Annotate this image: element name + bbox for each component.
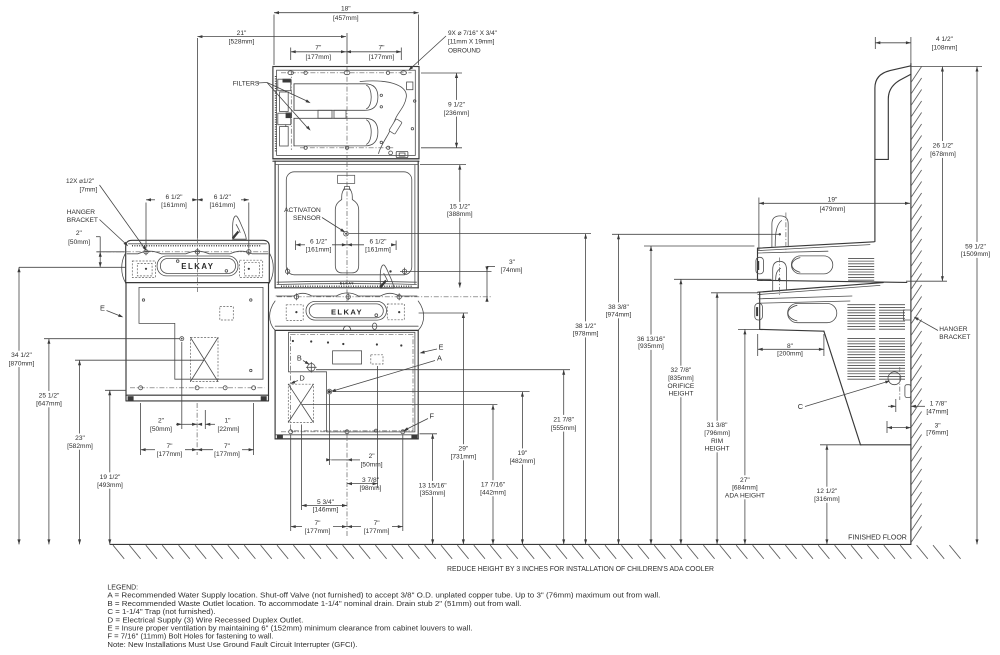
dim 7in pair left unit bolts	[140, 403, 142, 455]
svg-text:BRACKET: BRACKET	[67, 217, 98, 224]
svg-text:[177mm]: [177mm]	[157, 451, 183, 458]
left unit basin scallops	[127, 251, 268, 254]
filter cabinet top obround holes row	[281, 72, 412, 74]
cartridge connector band	[318, 110, 332, 118]
svg-text:[177mm]: [177mm]	[364, 528, 390, 535]
svg-text:HANGER: HANGER	[939, 326, 967, 333]
dim 36 13/16 height (upper rim)	[644, 245, 754, 247]
svg-text:18": 18"	[341, 5, 351, 12]
wall line (side view)	[910, 64, 912, 545]
filter head manifold	[283, 79, 292, 83]
svg-text:[482mm]: [482mm]	[510, 458, 536, 465]
svg-text:59 1/2": 59 1/2"	[965, 243, 986, 250]
svg-text:[582mm]: [582mm]	[67, 443, 93, 450]
dim 21in	[197, 36, 346, 38]
bottle silhouette	[335, 187, 358, 273]
center unit access panel (notched)	[289, 332, 415, 432]
svg-text:F: F	[430, 412, 435, 421]
svg-text:7": 7"	[314, 520, 321, 527]
bottle cap line	[343, 188, 350, 190]
svg-text:[1509mm]: [1509mm]	[961, 251, 990, 258]
finished floor line	[110, 543, 911, 545]
dim 21 7/8 height (waste)	[316, 369, 570, 371]
left unit access panel (notched)	[139, 287, 263, 379]
filter cabinet left dotted strip	[275, 76, 277, 152]
svg-text:[108mm]: [108mm]	[932, 44, 958, 51]
svg-text:34 1/2": 34 1/2"	[11, 352, 32, 359]
filter cabinet bottom hole row	[300, 147, 395, 149]
svg-text:[835mm]: [835mm]	[668, 375, 694, 382]
filter cabinet bottom edge	[273, 158, 419, 160]
dim 19 height (supply)	[333, 391, 530, 393]
dim 9 1/2 cabinet holes vertical	[421, 72, 462, 74]
side view lower unit front button	[755, 303, 763, 320]
svg-text:B: B	[297, 354, 302, 363]
side view lower unit apron bottom	[760, 329, 824, 331]
dim 19 1/2 height	[105, 389, 126, 391]
top reference line	[911, 66, 982, 68]
drain trap circle	[888, 372, 901, 385]
center unit dashed knockout	[371, 355, 383, 364]
side view lower unit rim	[758, 283, 883, 293]
center unit inner panel	[286, 172, 412, 275]
dim 34 1/2 height	[18, 267, 20, 544]
svg-text:27": 27"	[740, 477, 750, 484]
wall hatching	[911, 67, 921, 83]
center unit basin scallops	[276, 293, 417, 296]
svg-text:[177mm]: [177mm]	[369, 54, 395, 61]
left unit front apron	[126, 282, 270, 284]
side view upper unit front button	[756, 257, 764, 274]
svg-text:[161mm]: [161mm]	[306, 247, 332, 254]
center unit gasket dotted strip	[281, 285, 413, 287]
svg-text:ADA HEIGHT: ADA HEIGHT	[725, 493, 765, 500]
waste outlet B	[308, 364, 316, 372]
side view upper unit louvers	[848, 257, 874, 259]
dim 17 7/16 height	[302, 404, 497, 406]
svg-text:LEGEND:: LEGEND:	[107, 585, 138, 592]
svg-text:OBROUND: OBROUND	[448, 47, 481, 54]
side view upper unit bottom	[758, 280, 907, 282]
svg-text:[177mm]: [177mm]	[305, 54, 331, 61]
svg-text:19 1/2": 19 1/2"	[100, 474, 121, 481]
svg-text:[50mm]: [50mm]	[150, 426, 172, 433]
svg-text:[442mm]: [442mm]	[480, 490, 506, 497]
svg-text:3": 3"	[509, 259, 516, 266]
svg-text:[870mm]: [870mm]	[9, 360, 35, 367]
svg-text:31 3/8": 31 3/8"	[707, 422, 728, 429]
left unit side bulge left	[122, 253, 126, 283]
svg-text:[684mm]: [684mm]	[732, 485, 758, 492]
svg-text:2": 2"	[369, 453, 376, 460]
svg-text:36 13/16": 36 13/16"	[637, 336, 666, 343]
svg-text:3 7/8": 3 7/8"	[362, 477, 380, 484]
side view upper bubbler	[772, 216, 788, 247]
svg-text:D = Electrical Supply (3) Wire: D = Electrical Supply (3) Wire Recessed …	[107, 617, 303, 624]
svg-text:19": 19"	[518, 450, 528, 457]
svg-text:E: E	[439, 342, 444, 351]
left unit bolt row	[130, 387, 265, 389]
svg-text:BRACKET: BRACKET	[939, 334, 970, 341]
center unit bubbler	[380, 265, 394, 288]
svg-text:[493mm]: [493mm]	[97, 482, 123, 489]
left unit lower cabinet	[126, 283, 269, 396]
dim 4 1/2 top	[874, 37, 876, 49]
left unit basin gasket dotted strip	[132, 245, 261, 247]
svg-text:[316mm]: [316mm]	[814, 496, 840, 503]
dim 59 1/2 overall height	[976, 67, 978, 545]
svg-text:[974mm]: [974mm]	[606, 312, 632, 319]
svg-text:RIM: RIM	[711, 438, 723, 445]
svg-text:38 3/8": 38 3/8"	[608, 304, 629, 311]
svg-text:[796mm]: [796mm]	[704, 430, 730, 437]
center unit hanger bracket dashed rects	[286, 305, 303, 321]
dim 13 15/16 bolt height	[420, 433, 438, 435]
svg-text:[935mm]: [935mm]	[638, 343, 664, 350]
left unit panel screws	[142, 299, 144, 301]
dim 29 height ref	[419, 312, 468, 314]
tube top fitting	[407, 82, 413, 90]
svg-text:Note: New Installations Must U: Note: New Installations Must Use Ground …	[107, 642, 357, 649]
svg-text:A = Recommended Water Supply l: A = Recommended Water Supply location. S…	[107, 593, 660, 600]
svg-text:[555mm]: [555mm]	[551, 425, 577, 432]
dim 15 1/2 upper panel	[420, 164, 466, 166]
svg-text:5 3/4": 5 3/4"	[317, 499, 335, 506]
center unit small oval under logo	[343, 326, 351, 330]
svg-text:ELKAY: ELKAY	[331, 307, 363, 316]
svg-text:17 7/16": 17 7/16"	[481, 482, 506, 489]
svg-text:1 7/8": 1 7/8"	[930, 401, 948, 408]
svg-text:[50mm]: [50mm]	[68, 239, 90, 246]
svg-text:[161mm]: [161mm]	[365, 247, 391, 254]
svg-text:9X ⌀ 7/16" X 3/4": 9X ⌀ 7/16" X 3/4"	[448, 30, 497, 37]
svg-text:[7mm]: [7mm]	[80, 186, 98, 193]
filter cartridge 1	[294, 84, 378, 111]
dim 25 1/2 height	[44, 338, 180, 340]
center unit bottom flange	[275, 434, 418, 436]
dim 1 7/8 drain	[895, 399, 897, 412]
left unit basin top	[126, 240, 270, 283]
side view upper unit side capsule	[791, 256, 832, 274]
svg-text:19": 19"	[828, 197, 838, 204]
left unit bottom flange	[126, 394, 269, 396]
dim 7in right (cabinet holes)	[400, 48, 402, 61]
svg-text:ORIFICE: ORIFICE	[668, 383, 695, 390]
center unit centerline	[346, 33, 348, 64]
side view lower unit front face	[759, 292, 761, 329]
svg-text:21 7/8": 21 7/8"	[553, 416, 574, 423]
center unit vent rect	[333, 351, 362, 364]
dim 23 height	[75, 359, 204, 361]
power switch	[396, 151, 408, 157]
svg-text:FINISHED FLOOR: FINISHED FLOOR	[848, 534, 907, 541]
svg-text:6 1/2": 6 1/2"	[214, 194, 232, 201]
svg-text:26 1/2": 26 1/2"	[933, 142, 954, 149]
side view lower cabinet bottom	[861, 444, 911, 446]
svg-text:12 1/2": 12 1/2"	[817, 488, 838, 495]
svg-text:[98mm]: [98mm]	[360, 485, 382, 492]
svg-text:[50mm]: [50mm]	[361, 461, 383, 468]
filter cartridge 2	[294, 118, 378, 146]
svg-text:15 1/2": 15 1/2"	[449, 203, 470, 210]
tube inline coupling	[389, 119, 402, 135]
svg-text:E: E	[100, 303, 105, 312]
svg-text:[200mm]: [200mm]	[777, 351, 803, 358]
svg-text:FILTERS: FILTERS	[233, 80, 260, 87]
svg-text:[161mm]: [161mm]	[209, 202, 235, 209]
supply location A dot	[328, 390, 331, 393]
dim 7in left (cabinet holes)	[290, 48, 292, 61]
dim 1in left unit	[204, 410, 206, 429]
svg-text:[479mm]: [479mm]	[820, 206, 846, 213]
svg-text:6 1/2": 6 1/2"	[369, 238, 387, 245]
svg-text:[47mm]: [47mm]	[926, 408, 948, 415]
svg-text:REDUCE HEIGHT BY 3 INCHES FOR: REDUCE HEIGHT BY 3 INCHES FOR INSTALLATI…	[447, 566, 714, 573]
svg-text:4 1/2": 4 1/2"	[936, 36, 954, 43]
dim 6 1/2 pair on left unit	[145, 203, 147, 249]
svg-text:D: D	[299, 373, 304, 382]
svg-text:7": 7"	[374, 520, 381, 527]
filter tubing	[360, 81, 406, 154]
svg-text:1": 1"	[224, 417, 231, 424]
filter cabinet screws	[380, 94, 382, 96]
dim 6 1/2 pair on panel	[295, 241, 297, 251]
panel bolt holes with crosshairs	[285, 269, 289, 273]
dim 2in hanger bracket left	[74, 229, 83, 237]
dim 31 3/8 rim height	[711, 292, 758, 294]
center unit hanger dash-dot line	[277, 296, 492, 298]
center unit bolt row	[281, 431, 414, 433]
svg-text:6 1/2": 6 1/2"	[165, 194, 183, 201]
svg-text:21": 21"	[237, 30, 247, 37]
left unit hanger bracket dash-dot line	[96, 251, 268, 253]
svg-text:HEIGHT: HEIGHT	[668, 391, 693, 398]
svg-text:[731mm]: [731mm]	[451, 454, 477, 461]
svg-text:B = Recommended Waste Outlet l: B = Recommended Waste Outlet location. T…	[107, 601, 521, 608]
center unit lower cabinet	[275, 330, 418, 439]
dim 34 1/2 ref line	[19, 266, 126, 268]
bottle filler chase column	[875, 66, 911, 242]
dim 27 ADA height	[738, 328, 760, 330]
svg-text:A: A	[437, 354, 442, 363]
svg-text:12X ⌀1/2": 12X ⌀1/2"	[66, 178, 94, 185]
svg-text:[978mm]: [978mm]	[573, 331, 599, 338]
dim 26 1/2 filler height	[906, 280, 947, 282]
svg-text:29": 29"	[459, 446, 469, 453]
svg-text:[177mm]: [177mm]	[214, 451, 240, 458]
svg-text:C: C	[798, 402, 804, 411]
wall drain stub	[905, 385, 911, 398]
svg-text:2": 2"	[76, 230, 83, 237]
floor hatching	[113, 545, 124, 559]
dim 5 3/4 center unit	[301, 425, 303, 511]
svg-text:6 1/2": 6 1/2"	[310, 238, 328, 245]
dim 8in side view	[757, 334, 759, 356]
left unit hanger bracket dashed rects	[132, 261, 155, 278]
svg-text:7": 7"	[378, 45, 385, 52]
svg-text:[161mm]: [161mm]	[161, 202, 187, 209]
side view upper unit top rim	[758, 242, 875, 248]
center unit apron bottom	[275, 325, 418, 327]
center unit panel dots	[292, 340, 294, 342]
dim 3 7/8 center unit	[377, 366, 379, 488]
svg-text:2": 2"	[158, 417, 165, 424]
center unit ELKAY logo plate	[306, 301, 387, 320]
svg-text:[236mm]: [236mm]	[444, 110, 470, 117]
svg-text:[76mm]: [76mm]	[926, 429, 948, 436]
center unit basin rim lines	[277, 281, 417, 282]
svg-text:[353mm]: [353mm]	[420, 490, 446, 497]
svg-text:C = 1-1/4" Trap (not furnished: C = 1-1/4" Trap (not furnished).	[107, 609, 215, 616]
svg-text:7": 7"	[315, 45, 322, 52]
dim 7in pair center unit	[290, 435, 292, 531]
svg-text:[528mm]: [528mm]	[229, 39, 255, 46]
svg-text:25 1/2": 25 1/2"	[39, 392, 60, 399]
svg-text:[647mm]: [647mm]	[36, 401, 62, 408]
center unit side bulges	[270, 301, 276, 330]
left unit water supply hole (A)	[180, 337, 184, 341]
svg-text:7": 7"	[166, 443, 173, 450]
svg-text:[388mm]: [388mm]	[447, 211, 473, 218]
svg-text:F = 7/16" (11mm) Bolt Holes fo: F = 7/16" (11mm) Bolt Holes for fastenin…	[107, 634, 273, 641]
side view hanger bracket at wall	[904, 309, 911, 311]
svg-text:7": 7"	[224, 443, 231, 450]
svg-text:E = Insure proper ventilation: E = Insure proper ventilation by maintai…	[107, 626, 472, 633]
svg-text:[457mm]: [457mm]	[333, 15, 359, 22]
left unit centerline	[196, 38, 198, 238]
svg-text:ELKAY: ELKAY	[181, 262, 214, 271]
svg-text:13 15/16": 13 15/16"	[419, 482, 448, 489]
svg-text:[74mm]: [74mm]	[501, 267, 523, 274]
svg-text:9 1/2": 9 1/2"	[448, 101, 466, 108]
dim 12 1/2 height	[820, 444, 862, 446]
svg-text:32 7/8": 32 7/8"	[671, 367, 692, 374]
svg-text:SENSOR: SENSOR	[293, 215, 321, 222]
svg-text:HEIGHT: HEIGHT	[705, 446, 730, 453]
svg-text:[177mm]: [177mm]	[305, 528, 331, 535]
side view lower bubbler dome	[773, 261, 787, 290]
svg-text:8": 8"	[787, 343, 794, 350]
dim 38 3/8 height (upper bubbler)	[612, 233, 770, 235]
center unit upper panel sides	[274, 161, 276, 288]
side view lower unit apron lines	[759, 296, 852, 299]
left unit ELKAY logo plate	[157, 256, 238, 276]
svg-text:[146mm]: [146mm]	[313, 507, 339, 514]
side view lower unit upper louvers	[847, 304, 875, 306]
inner panel top notch	[338, 175, 355, 183]
svg-text:ACTIVATON: ACTIVATON	[284, 207, 321, 214]
filter cabinet outline	[273, 67, 419, 159]
svg-text:[22mm]: [22mm]	[218, 426, 240, 433]
side view lower unit big louver block	[847, 337, 875, 339]
activation sensor	[344, 231, 349, 236]
dim 2in center unit	[328, 395, 330, 466]
svg-text:23": 23"	[75, 435, 85, 442]
bottle filler arm inner profile	[875, 74, 911, 159]
left unit electrical X-box (D)	[191, 338, 219, 382]
side view lower unit side capsule	[788, 304, 837, 323]
svg-text:HANGER: HANGER	[67, 209, 95, 216]
dim 38 1/2 height (sensor)	[349, 233, 591, 235]
dim 3in drain stub	[886, 421, 888, 433]
dim 3in bubbler projection	[400, 270, 492, 272]
side view upper unit front face	[757, 248, 759, 280]
svg-text:[11mm X 19mm]: [11mm X 19mm]	[448, 39, 495, 46]
center unit access panel dash-dot	[291, 334, 414, 431]
dim 2in left unit bolts	[181, 342, 183, 429]
dim 32 7/8 orifice height	[674, 278, 772, 280]
left unit bubbler	[233, 216, 247, 239]
left unit side bulge right	[269, 253, 273, 283]
side view lower cabinet taper	[824, 331, 861, 445]
svg-text:38 1/2": 38 1/2"	[575, 323, 596, 330]
dim 18in overall width	[273, 15, 275, 66]
svg-text:[678mm]: [678mm]	[930, 151, 956, 158]
electrical X-box D	[288, 384, 313, 422]
left unit dotted knockout square	[220, 307, 234, 321]
left unit small screws on apron	[176, 260, 179, 263]
dim 19in side view	[758, 198, 760, 251]
